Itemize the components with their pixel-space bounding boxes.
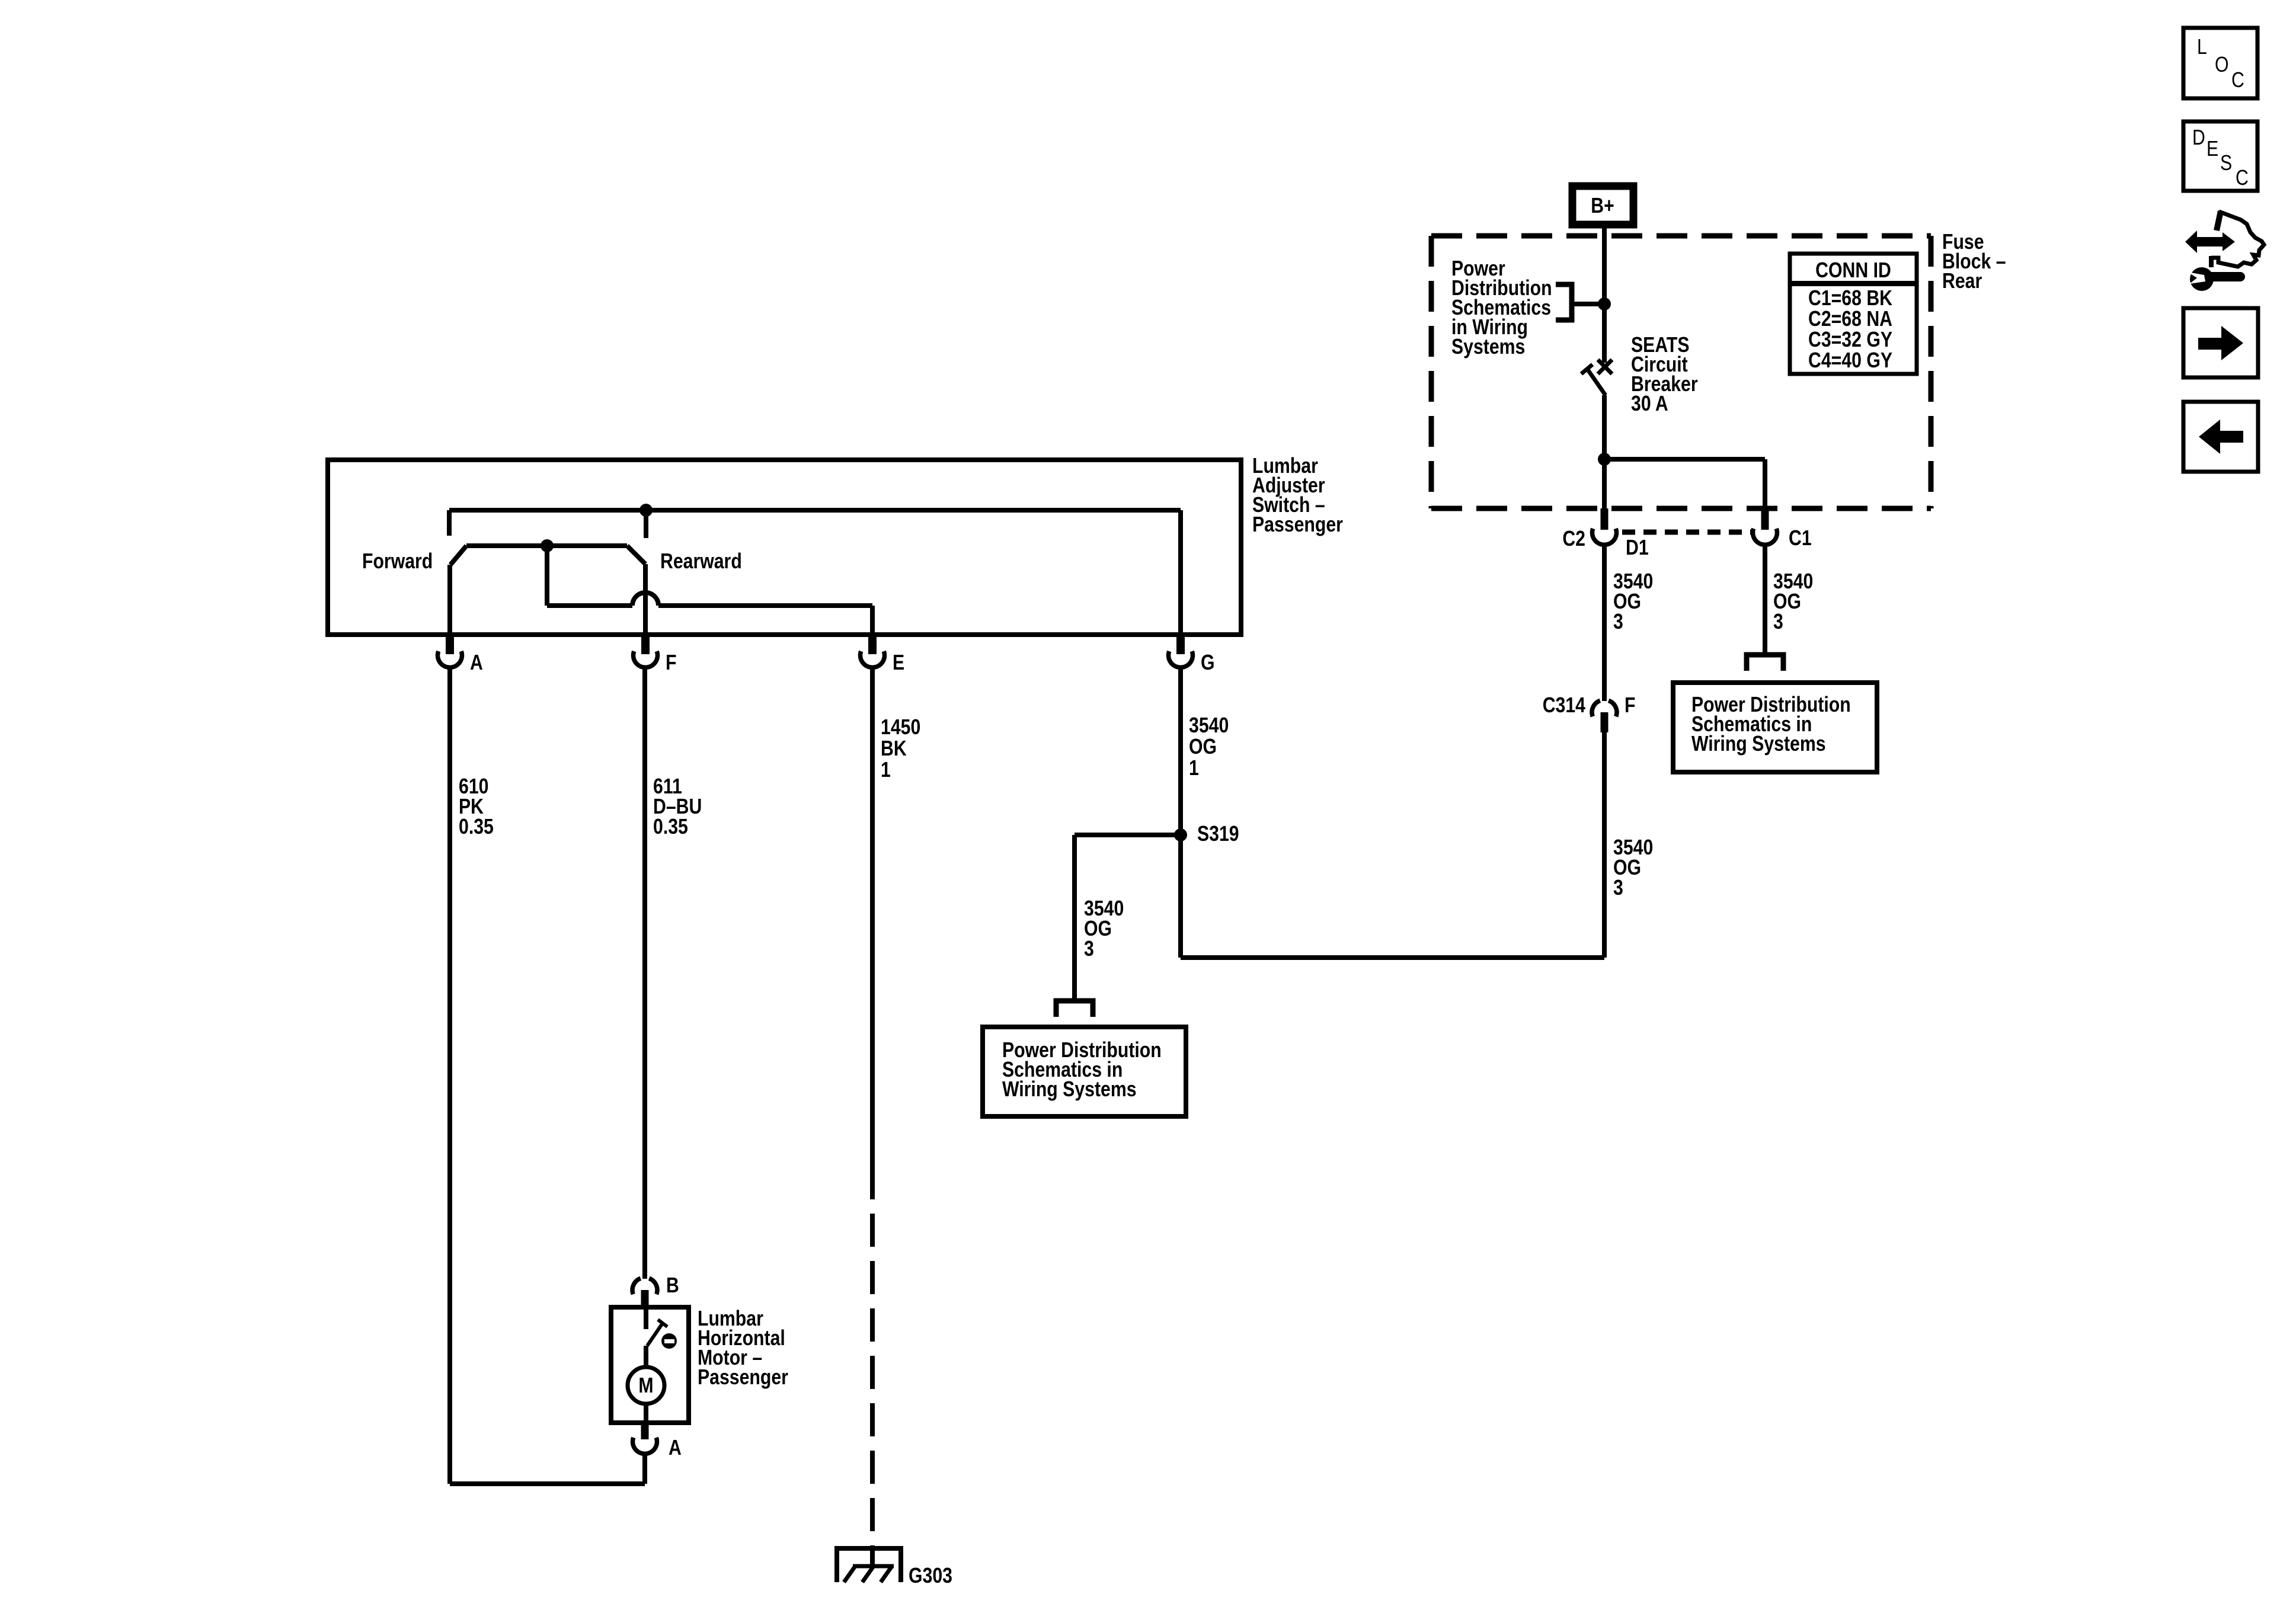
svg-text:OG: OG bbox=[1189, 735, 1217, 759]
svg-text:3540: 3540 bbox=[1189, 714, 1229, 738]
svg-text:B: B bbox=[666, 1274, 679, 1298]
svg-text:1: 1 bbox=[1189, 757, 1199, 780]
svg-text:BK: BK bbox=[881, 737, 907, 761]
svg-text:Systems: Systems bbox=[1451, 335, 1525, 359]
svg-text:S319: S319 bbox=[1197, 822, 1239, 846]
svg-text:D1: D1 bbox=[1626, 536, 1649, 560]
svg-text:E: E bbox=[893, 651, 904, 675]
svg-text:3: 3 bbox=[1084, 937, 1094, 961]
svg-text:C: C bbox=[2236, 167, 2249, 190]
svg-text:Passenger: Passenger bbox=[1252, 513, 1343, 537]
svg-text:L: L bbox=[2197, 36, 2207, 59]
svg-text:Passenger: Passenger bbox=[698, 1366, 788, 1390]
svg-text:S: S bbox=[2220, 152, 2232, 175]
svg-text:1450: 1450 bbox=[881, 716, 920, 740]
svg-text:Wiring Systems: Wiring Systems bbox=[1691, 732, 1826, 756]
svg-text:C4=40 GY: C4=40 GY bbox=[1808, 349, 1892, 373]
svg-text:C314: C314 bbox=[1543, 694, 1586, 718]
svg-text:0.35: 0.35 bbox=[459, 815, 494, 839]
svg-text:D: D bbox=[2192, 126, 2205, 150]
svg-text:O: O bbox=[2215, 53, 2229, 77]
svg-text:C: C bbox=[2231, 69, 2244, 92]
svg-text:30 A: 30 A bbox=[1631, 392, 1668, 416]
svg-text:3: 3 bbox=[1613, 876, 1623, 900]
svg-text:3: 3 bbox=[1773, 610, 1783, 634]
svg-text:1: 1 bbox=[881, 758, 891, 782]
svg-text:E: E bbox=[2207, 137, 2218, 161]
svg-text:3: 3 bbox=[1613, 610, 1623, 634]
svg-text:Forward: Forward bbox=[362, 550, 433, 574]
svg-text:C1: C1 bbox=[1789, 527, 1812, 550]
svg-text:0.35: 0.35 bbox=[653, 815, 688, 839]
svg-text:G: G bbox=[1201, 651, 1215, 675]
svg-text:A: A bbox=[470, 651, 483, 675]
svg-text:F: F bbox=[666, 651, 676, 675]
svg-text:A: A bbox=[669, 1436, 682, 1460]
svg-text:CONN ID: CONN ID bbox=[1815, 259, 1891, 283]
svg-text:Rear: Rear bbox=[1942, 270, 1982, 293]
svg-text:C2: C2 bbox=[1562, 527, 1585, 551]
svg-text:G303: G303 bbox=[909, 1564, 952, 1588]
svg-text:Rearward: Rearward bbox=[660, 550, 742, 574]
svg-text:B+: B+ bbox=[1591, 194, 1614, 218]
svg-text:F: F bbox=[1625, 694, 1635, 718]
svg-text:Wiring Systems: Wiring Systems bbox=[1002, 1078, 1137, 1102]
svg-text:M: M bbox=[638, 1374, 653, 1398]
